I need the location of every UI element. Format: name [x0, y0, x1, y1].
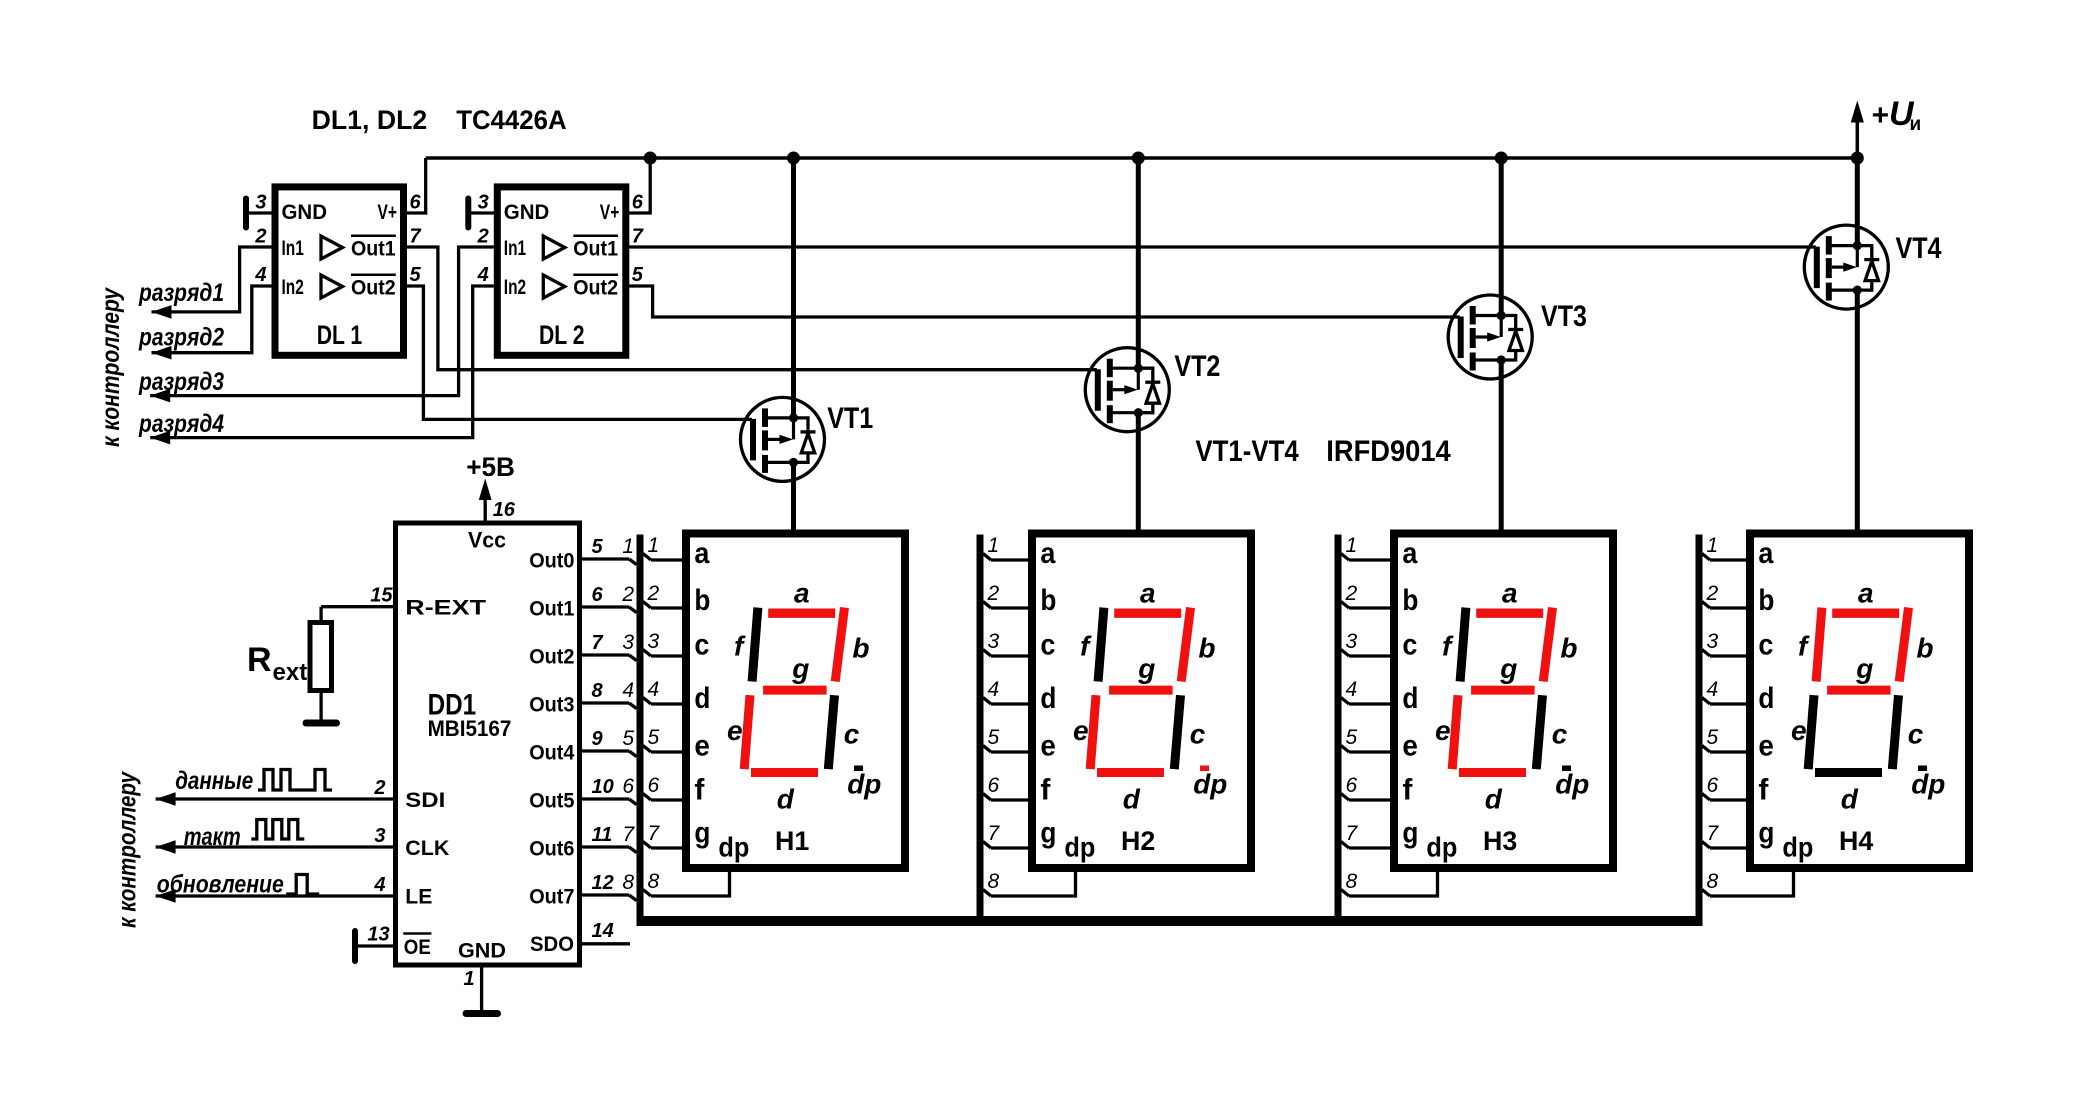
DD1 pin 15 (R-EXT) wire: [321, 605, 395, 608]
svg-text:MBI5167: MBI5167: [428, 716, 512, 741]
svg-text:Out1: Out1: [351, 238, 396, 261]
svg-text:b: b: [1560, 632, 1577, 663]
DD1 pin 13 OE wire: [355, 944, 395, 947]
svg-text:LE: LE: [405, 886, 432, 909]
svg-text:H4: H4: [1839, 826, 1873, 856]
power +Uu: [1856, 120, 1860, 158]
svg-text:a: a: [1402, 537, 1417, 570]
H3 bus entry 7 right wire to display pin: [1341, 842, 1349, 849]
svg-text:d: d: [1040, 682, 1056, 715]
svg-text:f: f: [1040, 774, 1051, 807]
DL2 pin3 ground bar: [465, 199, 471, 228]
svg-text:CLK: CLK: [405, 837, 449, 860]
svg-text:f: f: [694, 774, 705, 807]
svg-text:a: a: [1502, 577, 1518, 608]
H1 segment e: [744, 695, 750, 769]
H3 bus entry 1 right wire to display pin: [1341, 554, 1349, 561]
wire DL1 Out1 pin7 to VT2 gate: [404, 247, 1097, 370]
svg-text:6: 6: [622, 775, 634, 798]
waveform данные: [258, 770, 332, 791]
svg-text:1: 1: [464, 968, 475, 990]
H1 bus entry 7 right wire to display pin: [643, 842, 651, 849]
svg-text:b: b: [1916, 632, 1933, 663]
svg-text:4: 4: [373, 874, 385, 896]
H3 bus entry 6 right wire to display pin: [1341, 794, 1349, 801]
svg-text:a: a: [1140, 577, 1156, 608]
junction dot rail/+Uu riser: [1851, 152, 1864, 165]
svg-text:a: a: [1040, 537, 1055, 570]
svg-text:d: d: [777, 784, 795, 815]
svg-text:GND: GND: [504, 201, 550, 224]
svg-text:V+: V+: [378, 201, 398, 224]
svg-text:3: 3: [478, 192, 489, 214]
H2 segment f: [1098, 608, 1104, 682]
svg-text:DL 2: DL 2: [539, 320, 585, 350]
svg-text:7: 7: [410, 226, 422, 248]
svg-text:обновление: обновление: [157, 871, 284, 899]
svg-text:5: 5: [410, 264, 422, 286]
svg-text:13: 13: [367, 924, 389, 946]
svg-text:e: e: [1402, 730, 1418, 763]
H1 bus entry 3 left wire from DD1 Out2: [578, 653, 629, 656]
svg-text:7: 7: [988, 822, 1001, 845]
H1 segment c: [828, 695, 834, 769]
ground bar below Rext: [306, 720, 337, 727]
DL1 buffer triangle 1: [321, 236, 343, 259]
wire разряд3 to DL2 In1: [150, 247, 494, 396]
svg-text:5: 5: [622, 727, 634, 750]
ground bar below DD1: [466, 1010, 498, 1017]
svg-text:dp: dp: [1064, 832, 1095, 863]
H4 segment e: [1808, 695, 1814, 769]
svg-text:6: 6: [632, 192, 644, 214]
svg-text:Out2: Out2: [351, 277, 396, 300]
wire VT1 source lead from rail: [791, 158, 796, 418]
svg-text:Out6: Out6: [529, 838, 574, 861]
H4 segment c: [1892, 695, 1898, 769]
H4 bus entry 5 right wire to display pin: [1702, 746, 1710, 753]
svg-text:2: 2: [621, 583, 634, 606]
H1 bus entry 6 right wire to display pin: [643, 794, 651, 801]
cable bus bar for H1: [637, 535, 644, 922]
svg-text:In2: In2: [504, 276, 526, 299]
H3 bus entry 2 right wire to display pin: [1341, 602, 1349, 609]
H3 bus entry 3 right wire to display pin: [1341, 650, 1349, 657]
svg-text:4: 4: [1346, 678, 1358, 701]
cable bus bottom line: [637, 916, 1703, 926]
svg-text:+5В: +5В: [466, 452, 515, 482]
svg-text:5: 5: [1346, 726, 1358, 749]
svg-text:GND: GND: [458, 939, 506, 962]
H2 bus entry 4 right wire to display pin: [983, 698, 991, 705]
svg-text:c: c: [694, 629, 709, 662]
svg-text:e: e: [1791, 715, 1807, 746]
svg-text:g: g: [1758, 817, 1774, 850]
H3 segment a: [1476, 609, 1543, 618]
DL1 buffer triangle 2: [321, 275, 343, 298]
svg-text:GND: GND: [282, 201, 328, 224]
svg-text:R: R: [247, 641, 272, 679]
svg-text:12: 12: [592, 872, 614, 894]
H4 segment d: [1815, 768, 1882, 777]
svg-text:Vcc: Vcc: [468, 527, 506, 552]
svg-text:3: 3: [255, 192, 266, 214]
svg-text:6: 6: [592, 584, 604, 606]
driver IC DD1 (MBI5167) box: [396, 523, 580, 965]
svg-text:H3: H3: [1483, 826, 1517, 856]
svg-text:c: c: [844, 718, 860, 749]
junction dot rail/VT3: [1495, 152, 1508, 165]
svg-text:Out2: Out2: [529, 646, 574, 669]
svg-text:R-EXT: R-EXT: [405, 597, 486, 620]
svg-text:Out2: Out2: [573, 277, 618, 300]
svg-text:16: 16: [493, 499, 516, 521]
svg-text:dp: dp: [1911, 769, 1945, 800]
H3 segment d: [1459, 768, 1526, 777]
wire VT4 drain lead to H4: [1855, 290, 1860, 533]
svg-text:ext: ext: [273, 659, 308, 686]
H2 bus entry 8 right wire to display pin: [983, 890, 991, 897]
svg-text:c: c: [1402, 629, 1417, 662]
H1 bus entry 8 right wire to display pin: [643, 890, 651, 897]
DL1 pin 3 GND wire: [246, 211, 272, 214]
svg-text:Out5: Out5: [529, 790, 575, 813]
H4 bus entry 7 right wire to display pin: [1702, 842, 1710, 849]
H1 bus entry 6 left wire from DD1 Out5: [578, 797, 629, 800]
transistor VT2 (IRFD9014 P-MOSFET): [1085, 348, 1169, 432]
svg-text:In1: In1: [282, 237, 305, 260]
svg-text:e: e: [694, 730, 710, 763]
H3 segment c: [1536, 695, 1542, 769]
DD1 pin 14 SDO wire: [582, 942, 631, 945]
H2 segment b: [1181, 608, 1190, 682]
H2 bus entry 1 right wire to display pin: [983, 554, 991, 561]
svg-text:b: b: [1402, 584, 1418, 617]
svg-text:a: a: [1858, 577, 1874, 608]
DL2 buffer triangle 2: [543, 275, 565, 298]
svg-text:10: 10: [592, 776, 614, 798]
H2 bus entry 2 right wire to display pin: [983, 602, 991, 609]
svg-text:15: 15: [370, 585, 393, 607]
wire разряд4 to DL2 In2: [150, 286, 494, 438]
svg-text:b: b: [694, 584, 710, 617]
svg-text:c: c: [1552, 718, 1568, 749]
transistor VT4 (IRFD9014 P-MOSFET): [1804, 225, 1888, 309]
svg-text:8: 8: [648, 870, 660, 893]
H4 segment b: [1899, 608, 1908, 682]
svg-text:d: d: [1402, 682, 1418, 715]
svg-text:d: d: [1485, 784, 1503, 815]
svg-text:7: 7: [648, 822, 661, 845]
svg-text:g: g: [791, 653, 809, 684]
svg-text:SDI: SDI: [405, 789, 445, 812]
H1 bus entry 2 right wire to display pin: [643, 602, 651, 609]
H2 segment a: [1114, 609, 1181, 618]
svg-text:и: и: [1910, 114, 1922, 135]
H4 segment f: [1816, 608, 1822, 682]
svg-text:c: c: [1908, 718, 1924, 749]
svg-text:b: b: [1198, 632, 1215, 663]
H4 bus entry 1 right wire to display pin: [1702, 554, 1710, 561]
svg-text:+: +: [1871, 99, 1889, 132]
driver IC DL2 (TC4426A) box: [497, 187, 626, 355]
svg-text:данные: данные: [175, 767, 253, 795]
wire VT3 source lead from rail: [1499, 158, 1504, 316]
transistor VT3 (IRFD9014 P-MOSFET): [1448, 295, 1532, 379]
svg-text:6: 6: [648, 774, 660, 797]
svg-text:8: 8: [988, 870, 1000, 893]
wire DL2 Out2 pin5 to VT3 gate: [626, 286, 1460, 317]
svg-text:VT1-VT4: VT1-VT4: [1195, 435, 1299, 468]
svg-text:OE: OE: [404, 936, 431, 959]
svg-text:e: e: [1758, 730, 1774, 763]
H3 segment g: [1471, 686, 1535, 695]
svg-text:разряд3: разряд3: [138, 368, 224, 396]
svg-text:8: 8: [622, 871, 634, 894]
svg-text:5: 5: [648, 726, 660, 749]
svg-text:VT1: VT1: [827, 402, 873, 435]
svg-text:3: 3: [988, 630, 1000, 653]
svg-text:2: 2: [373, 777, 385, 799]
svg-text:dp: dp: [1782, 832, 1813, 863]
H2 segment c: [1174, 695, 1180, 769]
svg-text:e: e: [727, 715, 743, 746]
svg-text:4: 4: [988, 678, 1000, 701]
svg-text:к контроллеру: к контроллеру: [97, 287, 125, 447]
svg-text:7: 7: [592, 632, 604, 654]
svg-text:4: 4: [648, 678, 660, 701]
H1 segment f: [752, 608, 758, 682]
svg-text:7: 7: [1346, 822, 1359, 845]
svg-text:e: e: [1435, 715, 1451, 746]
svg-text:6: 6: [410, 192, 422, 214]
svg-text:разряд2: разряд2: [138, 323, 224, 351]
wire SDI to controller: [156, 797, 395, 800]
svg-text:3: 3: [374, 825, 385, 847]
wire DL2 Out1 pin7 to VT4 gate: [626, 245, 1816, 248]
svg-text:e: e: [1040, 730, 1056, 763]
svg-text:4: 4: [622, 679, 634, 702]
wire VT1 drain lead to H1: [791, 462, 796, 533]
svg-text:c: c: [1040, 629, 1055, 662]
wire DL1 V+ pin6 to rail: [404, 158, 426, 213]
junction dot rail/VT1: [787, 152, 800, 165]
svg-text:g: g: [1402, 817, 1418, 850]
svg-text:6: 6: [1346, 774, 1358, 797]
svg-text:1: 1: [1346, 534, 1358, 557]
seven-segment indicator H3 box: [1394, 534, 1613, 869]
wire VT4 source lead from rail: [1855, 158, 1860, 246]
svg-text:Out3: Out3: [529, 694, 574, 717]
svg-text:5: 5: [632, 264, 644, 286]
seven-segment indicator H2 box: [1032, 534, 1251, 869]
svg-text:2: 2: [477, 226, 489, 248]
DL1 pin3 ground bar: [243, 199, 249, 228]
H4 bus entry 3 right wire to display pin: [1702, 650, 1710, 657]
svg-text:9: 9: [592, 728, 604, 750]
svg-text:3: 3: [648, 630, 660, 653]
H1 segment dp mark: [854, 766, 863, 772]
svg-text:H1: H1: [775, 826, 809, 856]
svg-text:b: b: [1758, 584, 1774, 617]
OE ground bar: [352, 931, 358, 961]
svg-text:Out0: Out0: [529, 550, 574, 573]
svg-text:H2: H2: [1121, 826, 1155, 856]
H1 bus entry 2 left wire from DD1 Out1: [578, 605, 629, 608]
svg-text:1: 1: [622, 535, 634, 558]
svg-text:Out1: Out1: [529, 598, 575, 621]
svg-text:d: d: [1841, 784, 1859, 815]
H1 bus entry 7 left wire from DD1 Out6: [578, 845, 629, 848]
H4 bus entry 6 right wire to display pin: [1702, 794, 1710, 801]
svg-text:IRFD9014: IRFD9014: [1326, 435, 1451, 468]
wire разряд1 to DL1 In1: [152, 247, 272, 312]
waveform такт: [251, 820, 304, 840]
svg-text:g: g: [1499, 653, 1517, 684]
H2 segment g: [1109, 686, 1173, 695]
svg-text:4: 4: [1707, 678, 1719, 701]
svg-text:b: b: [852, 632, 869, 663]
H3 segment dp mark: [1562, 766, 1571, 772]
svg-text:VT3: VT3: [1541, 300, 1587, 333]
H4 segment a: [1832, 609, 1899, 618]
svg-text:In1: In1: [504, 237, 527, 260]
H3 bus entry 4 right wire to display pin: [1341, 698, 1349, 705]
svg-text:SDO: SDO: [530, 933, 574, 956]
svg-text:8: 8: [1707, 870, 1719, 893]
wire VT2 source lead from rail: [1136, 158, 1141, 368]
svg-text:g: g: [1040, 817, 1056, 850]
svg-text:1: 1: [988, 534, 1000, 557]
seven-segment indicator H1 box: [686, 534, 905, 869]
cable bus bar for H3: [1335, 535, 1342, 922]
H4 bus entry 2 right wire to display pin: [1702, 602, 1710, 609]
svg-text:d: d: [1758, 682, 1774, 715]
H3 bus entry 8 right wire to display pin: [1341, 890, 1349, 897]
H2 bus entry 3 right wire to display pin: [983, 650, 991, 657]
svg-text:f: f: [1402, 774, 1413, 807]
svg-text:DL1, DL2: DL1, DL2: [312, 105, 428, 135]
svg-text:d: d: [1123, 784, 1141, 815]
H1 segment d: [751, 768, 818, 777]
H1 bus entry 3 right wire to display pin: [643, 650, 651, 657]
svg-text:dp: dp: [718, 832, 749, 863]
svg-text:Out4: Out4: [529, 742, 575, 765]
svg-text:7: 7: [1707, 822, 1720, 845]
svg-text:Out1: Out1: [573, 238, 618, 261]
wire VT3 drain lead to H3: [1499, 360, 1504, 534]
H2 bus entry 6 right wire to display pin: [983, 794, 991, 801]
svg-text:8: 8: [1346, 870, 1358, 893]
H1 bus entry 1 left wire from DD1 Out0: [578, 557, 629, 560]
svg-text:2: 2: [987, 582, 1000, 605]
svg-text:11: 11: [592, 824, 613, 846]
svg-text:TC4426A: TC4426A: [456, 105, 566, 135]
H1 bus entry 5 left wire from DD1 Out4: [578, 749, 629, 752]
wire CLK to controller: [156, 845, 395, 848]
cable bus bar for H4: [1696, 535, 1703, 922]
H4 segment dp mark: [1918, 766, 1927, 772]
junction dot rail/DL2 V+: [644, 152, 657, 165]
svg-text:VT4: VT4: [1896, 232, 1942, 265]
svg-text:к контроллеру: к контроллеру: [114, 771, 142, 928]
svg-text:3: 3: [1707, 630, 1719, 653]
H1 segment b: [835, 608, 844, 682]
svg-text:5: 5: [592, 536, 604, 558]
svg-text:g: g: [1855, 653, 1873, 684]
H2 bus entry 7 right wire to display pin: [983, 842, 991, 849]
svg-text:dp: dp: [1555, 769, 1589, 800]
H3 segment b: [1543, 608, 1552, 682]
svg-text:d: d: [694, 682, 710, 715]
svg-text:dp: dp: [1426, 832, 1457, 863]
H1 bus entry 1 right wire to display pin: [643, 554, 651, 561]
svg-text:V+: V+: [600, 201, 620, 224]
svg-text:7: 7: [622, 823, 635, 846]
DD1 GND pin1 wire: [480, 966, 483, 1011]
driver IC DL1 (TC4426A) box: [275, 187, 404, 355]
resistor Rext: [319, 607, 322, 623]
H1 bus entry 4 left wire from DD1 Out3: [578, 701, 629, 704]
H3 segment e: [1452, 695, 1458, 769]
svg-text:a: a: [694, 537, 709, 570]
transistor VT1 (IRFD9014 P-MOSFET): [741, 397, 825, 481]
wire DL1 Out2 pin5 to VT1 gate: [404, 286, 753, 419]
H1 segment g: [763, 686, 827, 695]
H4 segment g: [1827, 686, 1891, 695]
wire разряд2 to DL1 In2: [152, 286, 272, 353]
svg-text:Out7: Out7: [529, 886, 574, 909]
svg-text:1: 1: [648, 534, 660, 557]
junction dot rail/VT2: [1132, 152, 1145, 165]
H3 segment f: [1460, 608, 1466, 682]
DL2 pin 3 GND wire: [468, 211, 494, 214]
H1 bus entry 5 right wire to display pin: [643, 746, 651, 753]
H2 segment d: [1097, 768, 1164, 777]
svg-text:In2: In2: [282, 276, 304, 299]
svg-text:5: 5: [1707, 726, 1719, 749]
svg-text:dp: dp: [1193, 769, 1227, 800]
svg-text:3: 3: [622, 631, 634, 654]
svg-text:2: 2: [254, 226, 266, 248]
cable bus bar for H2: [977, 535, 984, 922]
H2 segment dp mark: [1200, 766, 1209, 772]
svg-text:6: 6: [1707, 774, 1719, 797]
wire DL2 V+ pin6 to rail: [626, 158, 650, 213]
H2 segment e: [1090, 695, 1096, 769]
svg-text:4: 4: [477, 264, 489, 286]
svg-text:1: 1: [1707, 534, 1719, 557]
net +U rail: [426, 156, 1858, 160]
svg-text:f: f: [1758, 774, 1769, 807]
H3 bus entry 5 right wire to display pin: [1341, 746, 1349, 753]
svg-text:2: 2: [1706, 582, 1719, 605]
svg-text:c: c: [1758, 629, 1773, 662]
waveform обновление: [286, 875, 319, 895]
svg-text:dp: dp: [847, 769, 881, 800]
wire VT2 drain lead to H2: [1136, 413, 1141, 534]
seven-segment indicator H4 box: [1750, 534, 1969, 869]
svg-text:6: 6: [988, 774, 1000, 797]
wire LE to controller: [156, 894, 395, 897]
svg-text:7: 7: [632, 226, 644, 248]
svg-text:VT2: VT2: [1174, 350, 1220, 383]
svg-text:c: c: [1190, 718, 1206, 749]
svg-text:5: 5: [988, 726, 1000, 749]
svg-text:g: g: [694, 817, 710, 850]
svg-text:b: b: [1040, 584, 1056, 617]
svg-text:14: 14: [592, 920, 614, 942]
